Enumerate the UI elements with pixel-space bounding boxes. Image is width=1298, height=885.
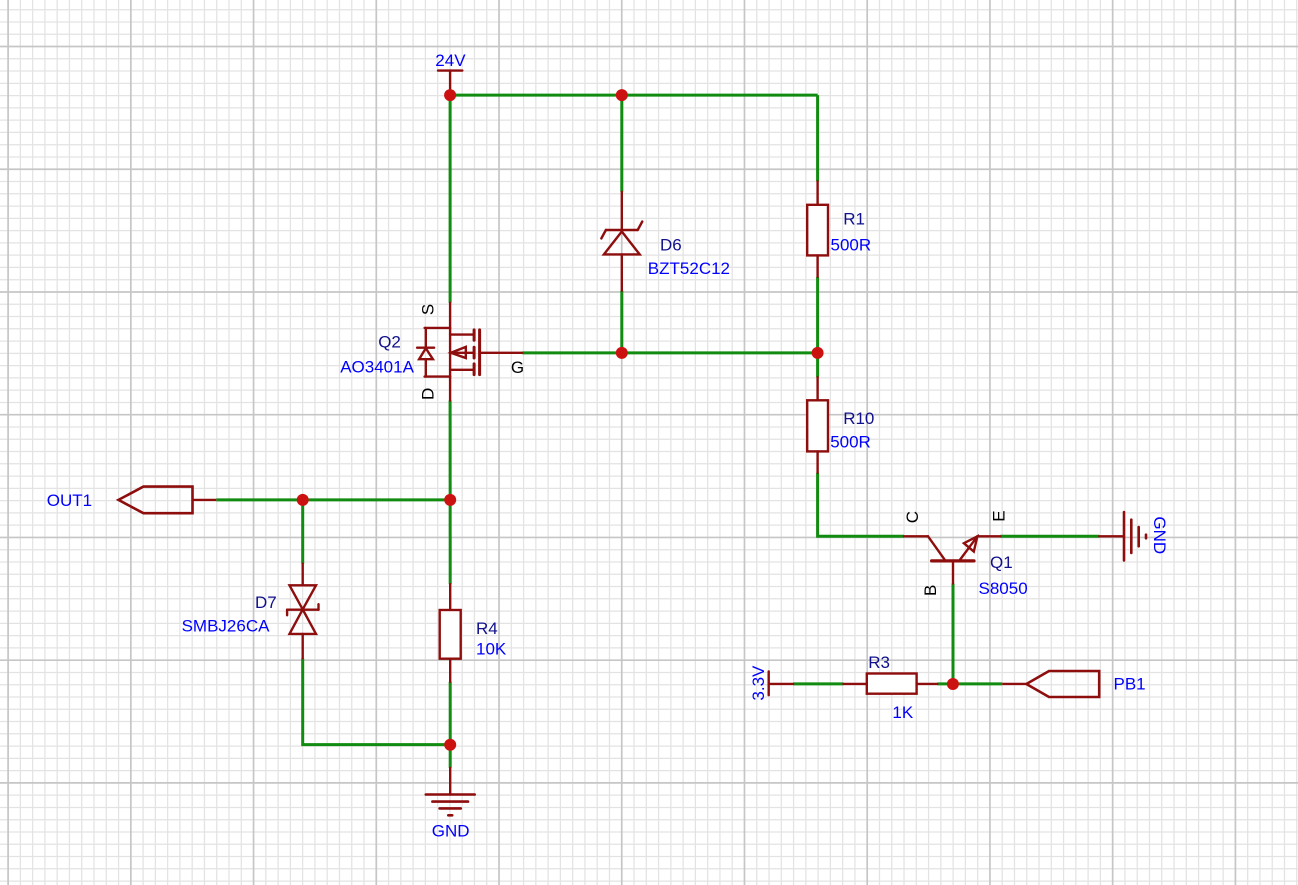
svg-text:S: S xyxy=(419,304,438,315)
svg-text:SMBJ26CA: SMBJ26CA xyxy=(182,617,271,636)
svg-text:R3: R3 xyxy=(868,653,890,672)
junction (622,95) xyxy=(616,89,628,101)
resistor R4 xyxy=(440,584,461,682)
connector PB1 xyxy=(1026,671,1099,697)
wire D6 bottom to gate net xyxy=(620,291,623,353)
ground GND right xyxy=(1099,512,1146,560)
wire gate horizontal xyxy=(522,351,817,354)
svg-text:S8050: S8050 xyxy=(979,579,1028,598)
junction (818,353) xyxy=(812,347,824,359)
wire Q1 base down xyxy=(952,584,955,685)
wire D7 bottom L to ground net xyxy=(303,658,451,744)
svg-text:D: D xyxy=(418,388,437,400)
transistor Q1 (NPN S8050) xyxy=(904,536,1001,583)
svg-text:E: E xyxy=(990,510,1009,521)
resistor R10 xyxy=(807,377,828,473)
resistor R3 xyxy=(843,674,937,694)
svg-text:R1: R1 xyxy=(843,210,865,229)
wire top horizontal 24V rail xyxy=(450,94,817,97)
svg-text:G: G xyxy=(511,358,524,377)
svg-text:3.3V: 3.3V xyxy=(749,665,768,701)
svg-text:24V: 24V xyxy=(435,51,466,70)
svg-text:GND: GND xyxy=(1150,516,1169,554)
svg-text:D7: D7 xyxy=(255,593,277,612)
svg-text:OUT1: OUT1 xyxy=(47,491,92,510)
svg-text:1K: 1K xyxy=(892,703,913,722)
resistor R1 xyxy=(807,181,828,277)
svg-text:GND: GND xyxy=(432,821,470,840)
wire D7 top xyxy=(301,500,304,564)
pin stub OUT1 xyxy=(193,499,217,501)
wire R4 bottom to GND xyxy=(449,682,452,768)
svg-text:B: B xyxy=(921,585,940,596)
junction (450,95) xyxy=(444,89,456,101)
junction (450,500) xyxy=(444,494,456,506)
junction (622,353) xyxy=(616,347,628,359)
svg-text:R4: R4 xyxy=(476,619,498,638)
svg-text:500R: 500R xyxy=(830,432,871,451)
svg-text:Q2: Q2 xyxy=(378,333,401,352)
zener diode D6 xyxy=(601,192,642,291)
wire R3 to PB1 xyxy=(937,682,1002,685)
svg-text:C: C xyxy=(903,511,922,523)
junction (450,745) xyxy=(444,739,456,751)
wire R10 bottom to Q1 collector xyxy=(818,473,904,537)
wire OUT1 row xyxy=(216,498,450,501)
junction (953,684) xyxy=(947,678,959,690)
connector OUT1 xyxy=(119,487,193,514)
wire Q1 emitter to GND xyxy=(1000,535,1099,538)
svg-text:AO3401A: AO3401A xyxy=(340,358,414,377)
wire 3.3V to R3 xyxy=(793,682,843,685)
ground GND bottom xyxy=(426,768,475,815)
TVS diode D7 xyxy=(287,564,318,659)
svg-text:PB1: PB1 xyxy=(1114,675,1146,694)
wire R1 top xyxy=(816,95,819,181)
svg-text:BZT52C12: BZT52C12 xyxy=(648,259,730,278)
wire left vertical to Q2 source xyxy=(449,95,452,303)
svg-text:R10: R10 xyxy=(843,409,874,428)
svg-text:D6: D6 xyxy=(660,235,682,254)
wire D6 top xyxy=(620,95,623,192)
svg-text:Q1: Q1 xyxy=(990,553,1013,572)
power flag 24V xyxy=(438,71,462,96)
wire R1 bottom / R10 top xyxy=(816,277,819,377)
transistor Q2 (PMOS AO3401A) xyxy=(417,303,522,401)
svg-text:10K: 10K xyxy=(476,639,507,658)
wire Q2 drain to R4 xyxy=(449,401,452,585)
power flag 3.3V xyxy=(769,671,794,695)
svg-text:500R: 500R xyxy=(831,236,872,255)
junction (303,500) xyxy=(297,494,309,506)
pin stub PB1 xyxy=(1002,683,1026,685)
